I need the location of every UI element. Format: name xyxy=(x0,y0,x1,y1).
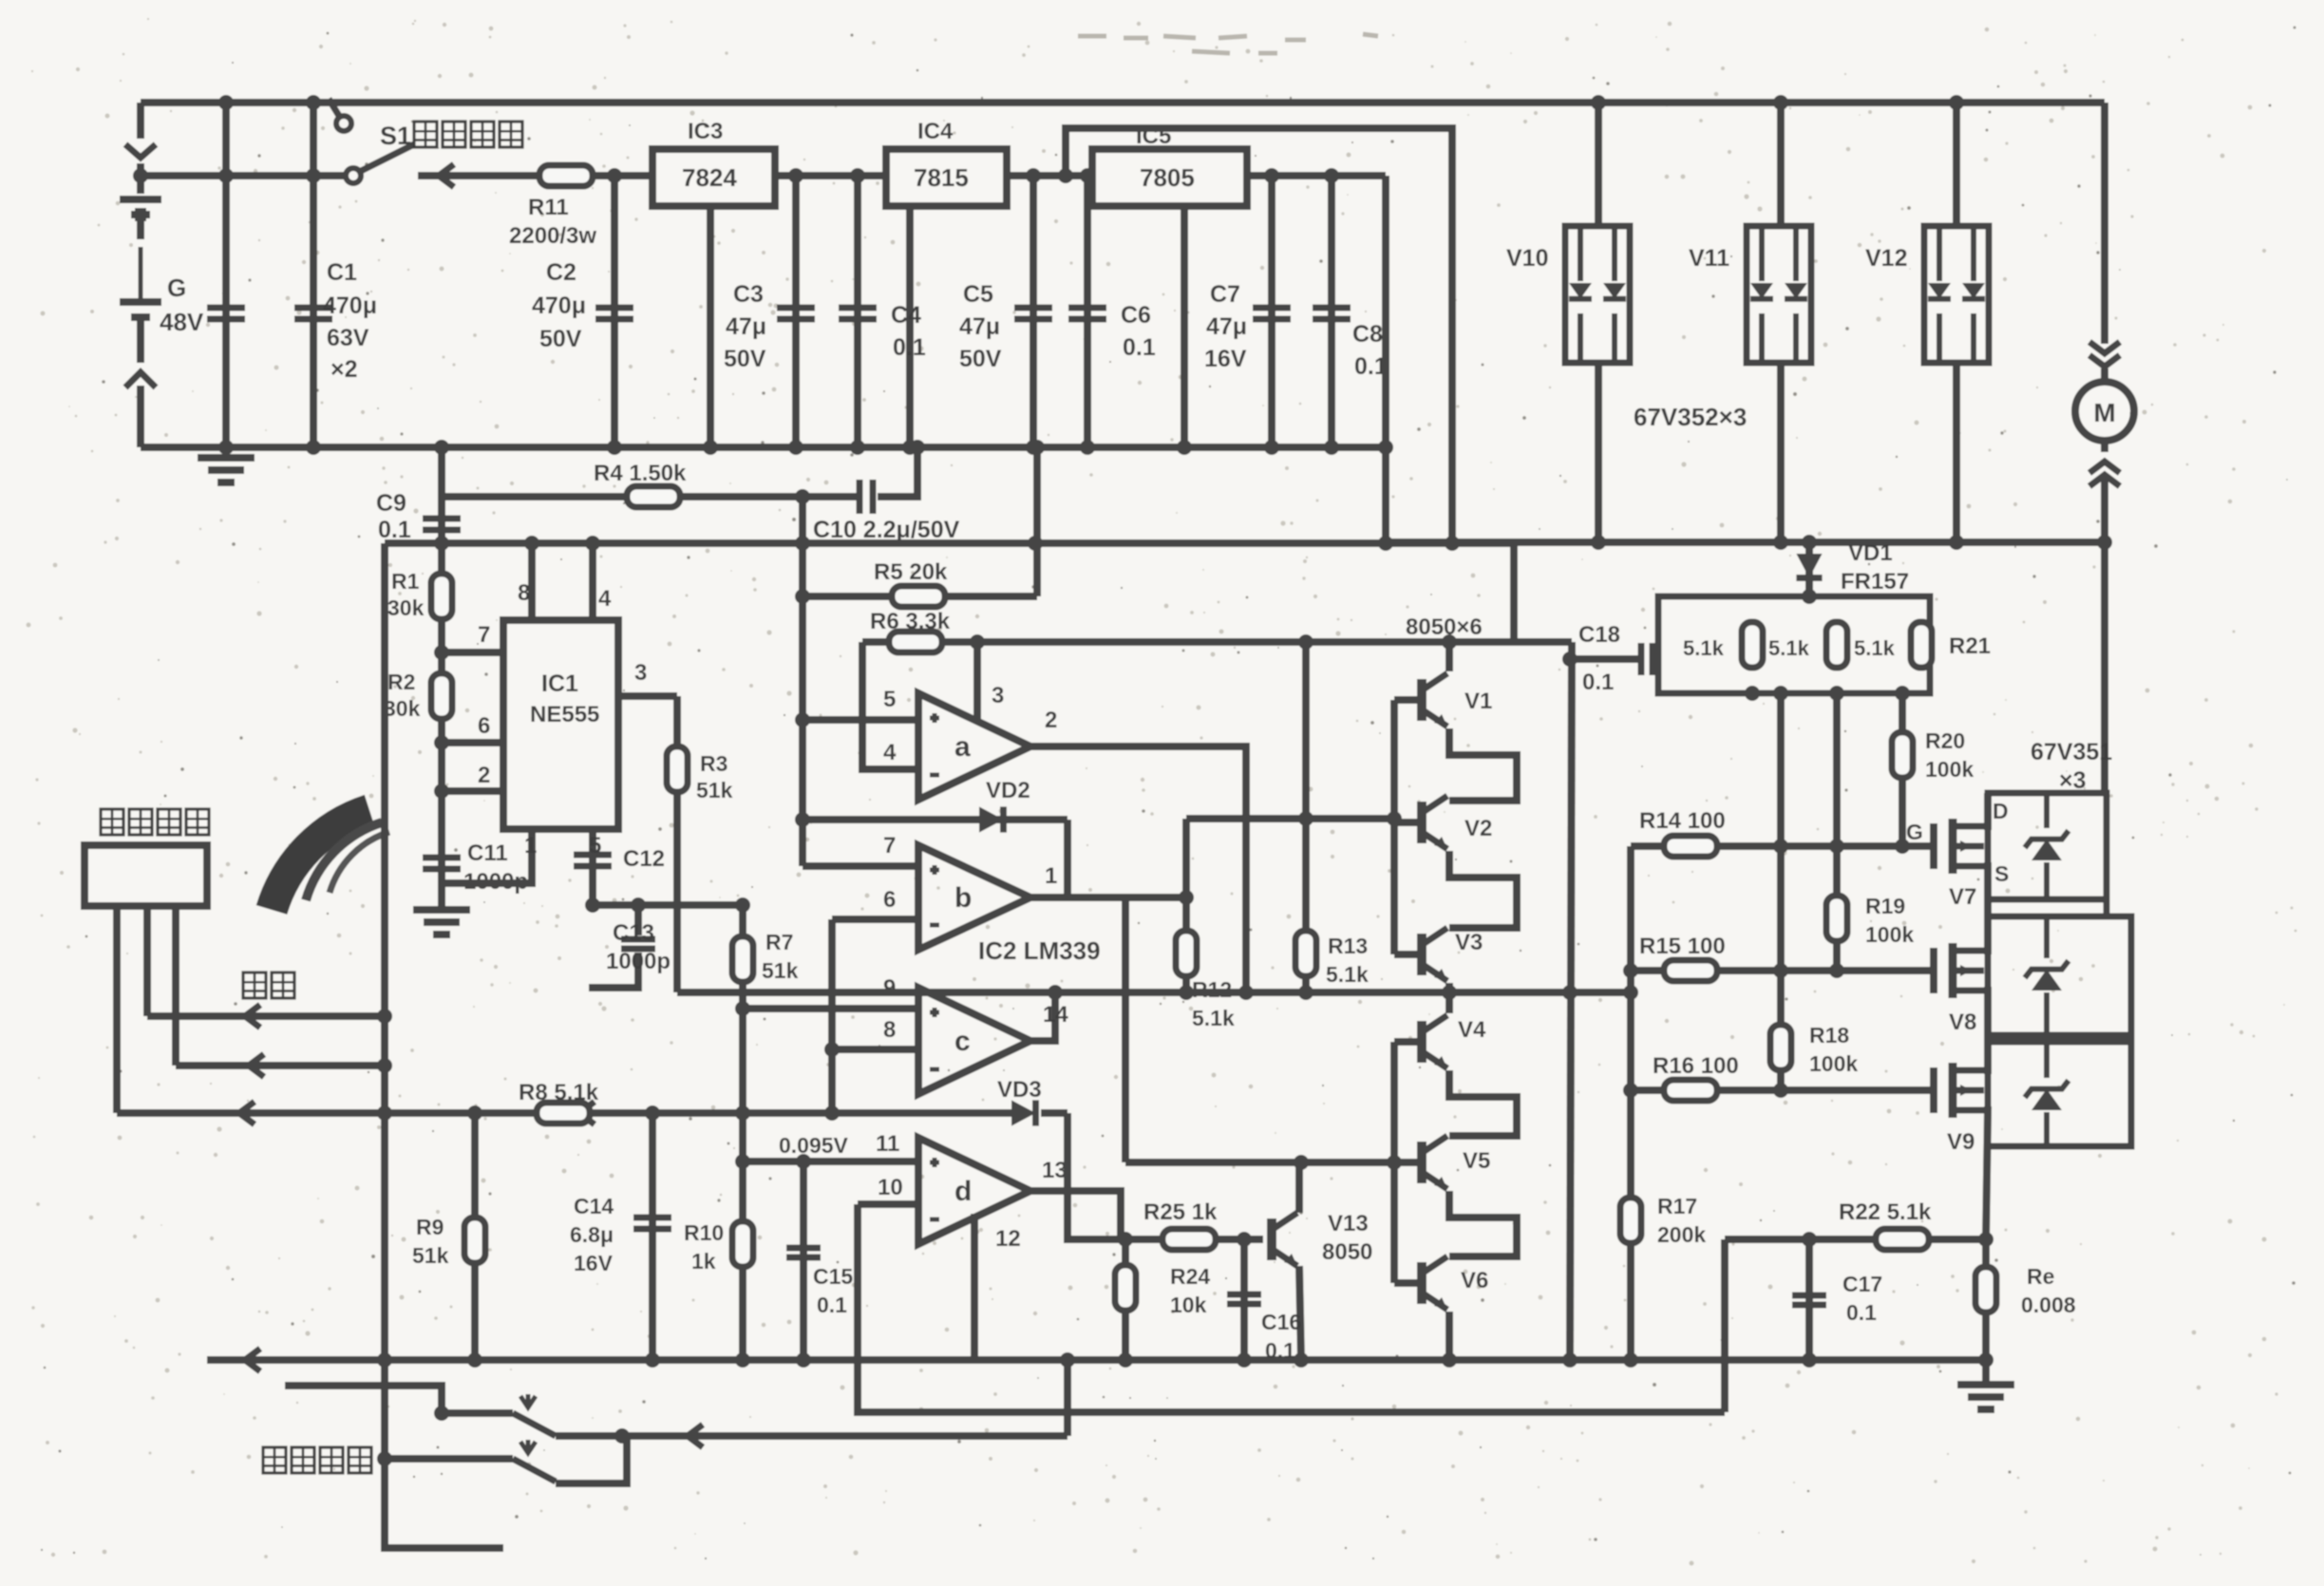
svg-text:4: 4 xyxy=(598,586,612,612)
svg-text:C6: C6 xyxy=(1121,302,1151,329)
wire V3 emitter to row M xyxy=(1445,983,1453,992)
svg-text:C17: C17 xyxy=(1842,1272,1882,1296)
svg-text:C4: C4 xyxy=(891,302,921,329)
regulator IC4 7815 xyxy=(886,149,1007,206)
svg-text:C11: C11 xyxy=(467,840,508,866)
wire IC5 output down to 5V bus xyxy=(1382,176,1389,543)
svg-text:5: 5 xyxy=(883,687,896,712)
svg-text:C3: C3 xyxy=(733,281,764,308)
svg-text:C2: C2 xyxy=(546,259,576,286)
capacitor (battery filter) column x238 xyxy=(222,103,230,447)
wire phase rail y571 xyxy=(1386,538,2105,546)
svg-text:0.008: 0.008 xyxy=(2021,1293,2076,1317)
svg-text:c: c xyxy=(954,1026,971,1057)
svg-text:C1: C1 xyxy=(327,259,357,286)
diode VD1 FR157 xyxy=(1805,542,1813,596)
svg-text:V2: V2 xyxy=(1464,816,1492,841)
capacitor C13 1000p xyxy=(634,905,642,935)
wire 24V bottom rail y471 xyxy=(141,444,1386,451)
wire IC3 to IC4 xyxy=(775,172,886,179)
svg-text:10k: 10k xyxy=(1170,1293,1207,1317)
svg-text:10: 10 xyxy=(878,1175,903,1200)
node junctions on rail y471 xyxy=(218,440,234,455)
svg-text:R8 5.1k: R8 5.1k xyxy=(519,1080,599,1105)
resistor R12 5.1k xyxy=(1182,819,1190,992)
svg-text:V6: V6 xyxy=(1461,1268,1488,1293)
svg-text:IC4: IC4 xyxy=(917,119,954,144)
svg-text:1: 1 xyxy=(1045,863,1057,889)
svg-text:IC2 LM339: IC2 LM339 xyxy=(978,936,1101,965)
svg-text:d: d xyxy=(954,1176,972,1207)
wire brake switch output row y1512 xyxy=(556,1432,1068,1440)
network resistor 5.1k #1 xyxy=(1742,622,1763,668)
wire box chain verticals xyxy=(2107,899,2131,916)
svg-text:1k: 1k xyxy=(691,1249,716,1274)
resistor R9 51k xyxy=(471,1113,479,1360)
mosfet V9 xyxy=(1930,1067,1937,1113)
svg-text:R4 1.50k: R4 1.50k xyxy=(594,461,687,486)
resistor R1 30k xyxy=(431,574,452,619)
motor M circle xyxy=(2075,382,2134,441)
wire IC1 pin4 riser xyxy=(589,543,596,620)
wire op-amp c output pin14 xyxy=(1030,992,1055,1041)
svg-text:NE555: NE555 xyxy=(530,702,599,727)
capacitor C16 0.1 xyxy=(1240,1239,1248,1360)
svg-text:9: 9 xyxy=(883,975,896,1001)
wire left rail x405 xyxy=(385,543,503,1548)
capacitor C3 47u 50V xyxy=(792,176,800,447)
switch S1 dian-men kai-guan xyxy=(346,168,361,183)
svg-text:67V351: 67V351 xyxy=(2031,739,2112,765)
svg-text:47μ: 47μ xyxy=(726,313,766,340)
svg-text:VD3: VD3 xyxy=(997,1077,1042,1103)
svg-text:R5 20k: R5 20k xyxy=(874,559,948,585)
wire op-amp b plus input pin7 xyxy=(803,862,918,870)
throttle twist-grip arc xyxy=(272,810,369,910)
svg-text:7805: 7805 xyxy=(1140,163,1195,192)
capacitor C5 47u 50V xyxy=(1030,176,1037,447)
wire V7 source xyxy=(1984,866,1988,916)
node junction op-amp b output on R12 column xyxy=(1179,890,1194,905)
wire hall feed row y1172 with connectors xyxy=(117,1109,1014,1117)
svg-text:C5: C5 xyxy=(963,281,993,308)
svg-text:14: 14 xyxy=(1043,1002,1068,1028)
svg-text:0.1: 0.1 xyxy=(1582,670,1614,695)
wire V2 base row y862 xyxy=(1186,815,1394,822)
resistor R2 30k xyxy=(431,673,452,719)
regulator IC5 7805 xyxy=(1092,149,1247,206)
resistor R3 51k xyxy=(673,696,681,992)
svg-text:V9: V9 xyxy=(1947,1129,1974,1155)
capacitor C7 47u 16V xyxy=(1268,176,1275,447)
mosfet V8 xyxy=(1930,948,1937,993)
resistor Re 0.008 xyxy=(1982,1239,1990,1360)
svg-text:R3: R3 xyxy=(700,751,727,776)
svg-text:0.095V: 0.095V xyxy=(779,1133,849,1158)
svg-text:V12: V12 xyxy=(1865,245,1907,272)
svg-text:R16 100: R16 100 xyxy=(1653,1053,1739,1079)
svg-text:11: 11 xyxy=(876,1131,899,1157)
op-amp IC2c xyxy=(918,988,1030,1094)
wire bottom row y1432 xyxy=(207,1356,1986,1364)
svg-text:100k: 100k xyxy=(1925,757,1974,782)
svg-text:30k: 30k xyxy=(384,696,421,721)
wire V11 to phase rail xyxy=(1777,363,1785,542)
wire brake row y1459 xyxy=(285,1386,442,1413)
svg-text:5.1k: 5.1k xyxy=(1683,636,1725,660)
svg-text:5.1k: 5.1k xyxy=(1854,636,1896,660)
resistor R19 100k xyxy=(1833,693,1841,971)
svg-text:5.1k: 5.1k xyxy=(1192,1006,1235,1030)
wire lower base rail x1468 xyxy=(1390,1042,1398,1283)
svg-text:R11: R11 xyxy=(528,195,569,220)
svg-text:G: G xyxy=(1906,820,1923,844)
svg-text:47μ: 47μ xyxy=(959,313,1000,340)
resistor R18 100k xyxy=(1777,971,1785,1090)
wire V13 collector to base row 1224 xyxy=(1295,1162,1303,1213)
svg-text:V1: V1 xyxy=(1464,689,1492,714)
wire IC3 ground pin xyxy=(707,206,714,447)
svg-text:0.1: 0.1 xyxy=(378,517,411,543)
svg-text:C12: C12 xyxy=(623,846,665,872)
resistor R7 51k xyxy=(732,936,753,982)
label brake levers xyxy=(263,1447,371,1473)
wire V13 emitter to bottom row xyxy=(1299,1266,1301,1360)
wire V1 collector to row 676 xyxy=(1445,642,1453,671)
svg-text:7815: 7815 xyxy=(914,163,969,192)
node junctions on phase rail xyxy=(1591,535,1606,550)
wire +48V top rail xyxy=(141,99,2105,106)
mosfet pair V12 box xyxy=(1953,103,1960,226)
svg-text:C7: C7 xyxy=(1210,281,1240,308)
wire riser x1816 from feedback row xyxy=(1721,1239,1729,1412)
svg-text:8050: 8050 xyxy=(1322,1239,1372,1265)
wire IC1 pin2 xyxy=(442,787,503,795)
capacitor C8 0.1 xyxy=(1328,176,1335,447)
svg-text:VD1: VD1 xyxy=(1848,540,1893,566)
wire 5V bus y572 xyxy=(385,543,1514,642)
mosfet V7 xyxy=(1930,823,1937,869)
wire IC1 pin5 riser and C12 xyxy=(589,829,596,905)
svg-text:50V: 50V xyxy=(724,346,766,372)
svg-text:V10: V10 xyxy=(1506,245,1548,272)
wire riser from bottom row to y1512 xyxy=(1064,1360,1071,1436)
svg-text:M: M xyxy=(2093,398,2115,427)
transistor V3 xyxy=(1394,951,1422,958)
svg-text:0.1: 0.1 xyxy=(1265,1338,1295,1363)
svg-text:7: 7 xyxy=(478,622,490,648)
svg-text:16V: 16V xyxy=(574,1251,614,1275)
svg-text:V7: V7 xyxy=(1949,884,1976,910)
wire IC5 output row xyxy=(1247,172,1386,179)
svg-text:50V: 50V xyxy=(959,346,1002,372)
wire V1 emitter chain xyxy=(1449,728,1517,801)
svg-text:a: a xyxy=(954,731,971,763)
capacitor C17 0.1 xyxy=(1805,1239,1813,1360)
ground below battery caps xyxy=(198,458,255,482)
svg-text:C10 2.2μ/50V: C10 2.2μ/50V xyxy=(813,517,960,543)
svg-text:470μ: 470μ xyxy=(532,293,586,319)
wire op-amp b output pin1 xyxy=(1030,894,1186,901)
wire VD2 row snake to V5 base row xyxy=(1068,820,1125,1162)
transistor V2 xyxy=(1394,819,1422,826)
wire IC4 to IC5 xyxy=(1007,172,1092,179)
wire V8 drain xyxy=(1984,916,1988,951)
svg-text:R22 5.1k: R22 5.1k xyxy=(1839,1199,1932,1225)
zener box V9 xyxy=(1988,1042,2131,1146)
svg-text:C16: C16 xyxy=(1261,1310,1301,1334)
svg-text:0.1: 0.1 xyxy=(1846,1300,1877,1325)
wire gate rail x1717 xyxy=(1627,846,1634,1360)
svg-text:R9: R9 xyxy=(416,1215,444,1239)
svg-text:b: b xyxy=(954,882,972,914)
svg-text:G: G xyxy=(167,274,186,302)
wire input rail x876 xyxy=(828,919,836,1113)
zener box V7 xyxy=(1988,793,2107,899)
resistor R10 1k xyxy=(732,1221,753,1267)
wire op-amp d minus input pin10 xyxy=(858,1200,918,1208)
transistor V4 xyxy=(1394,1038,1422,1046)
hall sensor box xyxy=(85,845,207,906)
resistor R24 10k xyxy=(1122,1239,1129,1360)
capacitor C6 0.1 xyxy=(1084,176,1091,447)
wire IC4 ground pin xyxy=(906,206,914,447)
svg-text:13: 13 xyxy=(1042,1158,1068,1183)
svg-text:V11: V11 xyxy=(1689,245,1729,272)
diode VD2 xyxy=(803,816,1068,823)
node junctions on row y185 xyxy=(218,168,234,183)
svg-text:2: 2 xyxy=(1045,708,1057,733)
svg-text:51k: 51k xyxy=(762,958,799,983)
wire V9 drain xyxy=(1984,1042,1988,1070)
paper smudge top xyxy=(1078,34,1378,53)
svg-text:0.1: 0.1 xyxy=(1123,334,1156,361)
svg-text:100k: 100k xyxy=(1809,1051,1858,1076)
svg-text:3: 3 xyxy=(634,660,647,686)
motor connector chevrons upper xyxy=(2089,342,2120,353)
wire R1 R2 C11 column xyxy=(438,543,445,893)
wire op-amp d plus input pin11 row xyxy=(743,1158,918,1165)
op-amp IC2a xyxy=(918,693,1030,800)
capacitor C14 6.8u 16V xyxy=(649,1113,656,1360)
wire V5 emitter chain xyxy=(1449,1191,1517,1256)
svg-text:51k: 51k xyxy=(412,1243,449,1268)
svg-text:C9: C9 xyxy=(376,490,406,517)
svg-text:R21: R21 xyxy=(1949,633,1991,659)
svg-text:R20: R20 xyxy=(1925,728,1965,753)
resistor R5 20k row xyxy=(803,593,1037,600)
svg-text:C15: C15 xyxy=(813,1264,853,1289)
svg-text:FR157: FR157 xyxy=(1841,569,1909,595)
wire pin10 feedback row y1487 xyxy=(858,1204,1725,1412)
svg-text:R6 3.3k: R6 3.3k xyxy=(870,609,951,634)
connector arrow on switch row xyxy=(418,172,513,179)
wire over-the-top bypass around IC5 xyxy=(1066,128,1452,543)
svg-text:IC1: IC1 xyxy=(541,670,578,697)
transistor V13 8050 xyxy=(1121,1236,1263,1243)
wire op-amp c minus input pin8 xyxy=(832,1046,918,1053)
svg-text:R10: R10 xyxy=(684,1220,724,1245)
resistor R16 100 gate row V9 xyxy=(1631,1086,1934,1094)
svg-text:Re: Re xyxy=(2027,1264,2054,1289)
resistor R13 5.1k xyxy=(1302,642,1310,992)
capacitor C11 1000p xyxy=(423,858,461,869)
svg-text:V5: V5 xyxy=(1463,1148,1490,1174)
node junctions on top rail xyxy=(218,95,234,110)
svg-text:0.1: 0.1 xyxy=(893,334,926,361)
node junctions on row y1172 xyxy=(377,1105,392,1121)
svg-text:1000p: 1000p xyxy=(606,949,671,974)
svg-text:R24: R24 xyxy=(1170,1264,1210,1289)
svg-text:2: 2 xyxy=(478,763,490,788)
wire hall pin2 down xyxy=(143,906,151,1016)
wire IC1 pin8 riser xyxy=(528,543,536,620)
svg-text:200k: 200k xyxy=(1657,1222,1706,1247)
svg-text:V13: V13 xyxy=(1328,1211,1369,1237)
svg-text:R1: R1 xyxy=(391,569,420,594)
wire LM339 VCC pin3 drop xyxy=(973,642,981,720)
svg-text:2200/3w: 2200/3w xyxy=(509,223,596,249)
svg-text:VD2: VD2 xyxy=(986,778,1030,803)
svg-text:6: 6 xyxy=(478,713,490,739)
svg-text:5.1k: 5.1k xyxy=(1326,962,1369,987)
capacitor C4 0.1 xyxy=(854,176,861,447)
wire pin5 row to R7 column xyxy=(593,901,743,909)
svg-text:30k: 30k xyxy=(387,595,425,620)
label speed control xyxy=(243,972,294,998)
resistor R11 xyxy=(513,172,652,179)
svg-text:16V: 16V xyxy=(1204,346,1247,372)
node junctions on 5V bus xyxy=(434,536,449,551)
op-amp IC2b xyxy=(918,845,1030,950)
resistor R20 100k xyxy=(1899,693,1906,846)
label hall device xyxy=(101,809,209,835)
svg-text:7824: 7824 xyxy=(682,163,737,192)
wire hall pin3 down xyxy=(172,906,179,1066)
wire V10 to phase rail xyxy=(1595,363,1602,542)
node junctions on column x782 xyxy=(735,1001,750,1016)
transistor V6 xyxy=(1394,1279,1422,1287)
wire op-amp d ground pin12 riser xyxy=(971,1214,978,1360)
svg-text:67V352×3: 67V352×3 xyxy=(1634,403,1747,431)
wire V7 drain xyxy=(1984,793,1988,826)
svg-text:C18: C18 xyxy=(1578,622,1620,648)
wire V2 emitter chain xyxy=(1449,851,1517,928)
svg-text:R13: R13 xyxy=(1328,934,1368,958)
wire IC5 ground pin xyxy=(1181,206,1188,447)
wire left rail x845 xyxy=(799,497,806,866)
wire V5 base row y1224 xyxy=(1125,1159,1394,1166)
svg-text:12: 12 xyxy=(995,1226,1021,1252)
node junctions on network xyxy=(1802,589,1817,604)
svg-text:5.1k: 5.1k xyxy=(1768,636,1810,660)
svg-text:3: 3 xyxy=(992,683,1004,708)
wire upper base rail x1468 xyxy=(1390,700,1398,954)
mosfet pair V11 box xyxy=(1777,103,1785,226)
op-amp IC1 NE555 box xyxy=(503,620,618,829)
svg-text:100k: 100k xyxy=(1865,922,1914,947)
resistor R14 100 gate row V7 xyxy=(1631,842,1934,850)
svg-text:R25 1k: R25 1k xyxy=(1143,1199,1218,1225)
svg-text:S: S xyxy=(1994,861,2009,886)
svg-text:47μ: 47μ xyxy=(1206,313,1247,340)
wire IC1 pin1 to ground node xyxy=(442,829,532,883)
transistor V1 xyxy=(1394,696,1422,704)
node junctions on R13 column xyxy=(1298,634,1313,650)
ground at bottom right xyxy=(1982,1360,1990,1385)
resistor R15 100 gate row V8 xyxy=(1631,967,1934,974)
svg-text:R18: R18 xyxy=(1809,1023,1849,1048)
svg-text:5: 5 xyxy=(589,833,601,859)
wire V12 to phase rail xyxy=(1953,363,1960,542)
wire IC1 pin7 xyxy=(442,649,503,656)
svg-text:IC3: IC3 xyxy=(688,119,723,144)
svg-text:470μ: 470μ xyxy=(323,293,377,319)
svg-text:V8: V8 xyxy=(1949,1010,1976,1035)
wire R6 corner down to op-amp a minus input xyxy=(862,642,918,769)
svg-text:C13: C13 xyxy=(613,920,654,946)
svg-text:8: 8 xyxy=(518,580,530,606)
wire node row M y1045 xyxy=(677,989,1635,996)
wire IC1 pin3 output xyxy=(618,692,677,700)
svg-text:V3: V3 xyxy=(1455,930,1483,955)
resistor R8 5.1k xyxy=(537,1103,590,1123)
wire R5 right riser to rail y471 xyxy=(1033,447,1041,596)
svg-text:7: 7 xyxy=(883,833,896,859)
capacitor C2 470u 50V xyxy=(611,176,618,447)
op-amp IC2d xyxy=(918,1138,1030,1244)
capacitor C18 0.1 xyxy=(1570,655,1639,663)
wire V8 source xyxy=(1984,991,1988,1042)
resistor R6 3.3k row xyxy=(862,638,1572,646)
wire rail x1875 from network to R18 xyxy=(1777,693,1785,971)
capacitor C15 0.1 xyxy=(800,1161,807,1360)
wire hall pin1 down xyxy=(113,906,121,1113)
svg-text:48V: 48V xyxy=(160,308,204,336)
wire op-amp d output pin13 xyxy=(1030,1191,1121,1239)
svg-text:C8: C8 xyxy=(1352,321,1383,348)
svg-text:V4: V4 xyxy=(1458,1017,1486,1043)
svg-text:R19: R19 xyxy=(1865,894,1905,918)
svg-text:51k: 51k xyxy=(696,778,733,802)
wire switched 48V row y185 xyxy=(141,172,344,179)
svg-text:1: 1 xyxy=(524,833,537,859)
svg-text:C14: C14 xyxy=(574,1194,614,1218)
wire lower switch output to riser xyxy=(556,1436,627,1483)
capacitor C9 0.1 xyxy=(438,447,445,543)
node junctions on bottom row y1432 xyxy=(377,1352,392,1368)
wire upper brake switch xyxy=(442,1409,513,1417)
svg-text:D: D xyxy=(1993,799,2009,823)
diode VD3 symbol on row 1172 xyxy=(1011,1100,1036,1125)
wire motor column xyxy=(2101,103,2108,344)
wire V4 emitter chain xyxy=(1449,1070,1517,1136)
wire right rail x1653 from row676 to bottom xyxy=(1570,642,1572,1360)
resistor network R21 box xyxy=(1658,596,1930,693)
wire V6 emitter to bottom row xyxy=(1445,1312,1453,1360)
network resistor 5.1k #2 xyxy=(1826,622,1847,668)
svg-text:R15 100: R15 100 xyxy=(1639,934,1726,959)
zener box V8 xyxy=(1988,916,2131,1035)
wire V9 source xyxy=(1984,1110,1988,1239)
wire op-amp a plus input pin5 xyxy=(803,716,918,724)
svg-text:4: 4 xyxy=(883,740,897,765)
capacitor C1 470u 63V x2 column xyxy=(310,103,317,447)
svg-text:63V: 63V xyxy=(327,325,369,351)
svg-text:×2: ×2 xyxy=(331,356,358,383)
network resistor 5.1k #3 xyxy=(1911,622,1932,668)
svg-text:R2: R2 xyxy=(387,670,415,694)
